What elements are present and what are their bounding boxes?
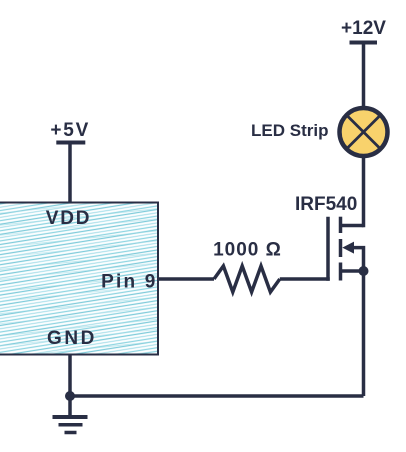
wire lamp to drain [362,150,366,227]
svg-text:Pin 9: Pin 9 [101,272,157,293]
svg-text:+5V: +5V [50,120,90,141]
transistor Q1 body wire to source [352,248,364,271]
transistor Q1 source stub [341,269,364,273]
power +5V bar [56,141,85,145]
resistor R1 1000 ohm zigzag [214,266,280,292]
svg-text:1000 Ω: 1000 Ω [213,240,282,261]
transistor Q1 channel bottom segment [339,263,343,281]
junction dot ground node [65,391,75,401]
ground symbol [53,417,88,433]
svg-text:+12V: +12V [341,18,386,39]
wire Pin 9 to resistor [158,277,214,281]
wire GND to ground [68,355,72,418]
wire resistor to gate [280,277,330,281]
lamp LED Strip [340,108,388,156]
svg-text:LED Strip: LED Strip [251,121,328,140]
wire +12V to lamp [362,43,366,115]
wire +5V to VDD [68,143,72,203]
transistor Q1 channel top segment [339,217,343,233]
wire bottom source to ground node [70,394,364,398]
junction dot source node [359,266,369,276]
wire source down [362,271,366,396]
transistor Q1 body arrow [342,242,354,254]
transistor Q1 drain stub [341,224,364,228]
transistor Q1 gate bar [326,217,330,281]
svg-text:IRF540: IRF540 [295,194,357,215]
power +12V bar [350,41,378,45]
MCU box U1 [0,203,158,355]
svg-text:VDD: VDD [46,208,92,229]
transistor Q1 channel middle segment [339,239,343,257]
svg-text:GND: GND [47,328,97,349]
